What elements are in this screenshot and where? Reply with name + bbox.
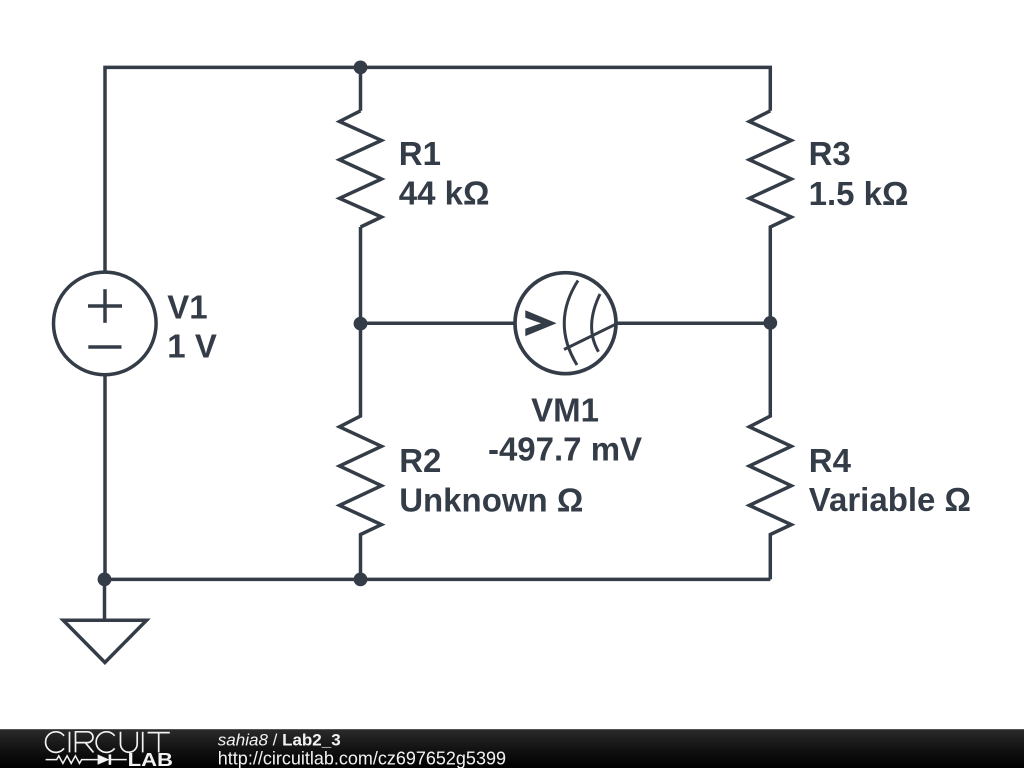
svg-text:R4: R4 <box>809 442 852 479</box>
wire voltmeter to mid right <box>617 322 770 326</box>
voltmeter VM1 circle <box>515 273 616 374</box>
svg-text:V1: V1 <box>167 288 207 325</box>
wire mid left to voltmeter <box>361 322 514 326</box>
svg-text:Unknown Ω: Unknown Ω <box>399 481 583 518</box>
svg-text:1 V: 1 V <box>167 327 217 364</box>
node C dot (mid right) <box>763 316 777 330</box>
ground wire <box>103 579 107 620</box>
svg-text:-497.7 mV: -497.7 mV <box>488 430 642 467</box>
VM1 chevron <box>525 310 556 336</box>
logo resistor squiggle <box>46 756 98 764</box>
wire top rail <box>105 67 770 271</box>
logo letter C <box>96 732 114 753</box>
wire R1 bottom <box>359 227 363 324</box>
voltage source V1 <box>54 272 157 375</box>
node E dot (bottom mid) <box>354 573 368 587</box>
resistor R1 <box>340 111 382 227</box>
V1 minus sign <box>88 345 121 349</box>
V1 plus sign <box>88 304 122 308</box>
logo letter T <box>148 733 170 753</box>
VM1 needle <box>564 323 619 350</box>
node A dot (top) <box>354 61 368 75</box>
footer bar <box>0 729 1024 768</box>
svg-text:R2: R2 <box>399 442 441 479</box>
svg-text:sahia8 / Lab2_3: sahia8 / Lab2_3 <box>218 730 341 749</box>
node D dot (bottom left) <box>98 573 112 587</box>
logo letter I <box>69 732 71 753</box>
resistor R4 <box>749 323 791 580</box>
VM1 arc left <box>564 281 578 366</box>
ground symbol <box>63 620 146 662</box>
svg-text:R1: R1 <box>399 135 441 172</box>
resistor R3 <box>749 111 791 323</box>
logo letter R <box>76 732 94 753</box>
node wire R1 top <box>359 67 363 110</box>
svg-text:http://circuitlab.com/cz697652: http://circuitlab.com/cz697652g5399 <box>218 749 506 768</box>
wire left rail bottom <box>103 374 107 580</box>
logo letter U <box>121 732 138 752</box>
svg-text:Variable Ω: Variable Ω <box>809 481 971 518</box>
resistor R2 <box>340 324 382 580</box>
logo diode <box>98 754 110 764</box>
wire bottom rail <box>105 578 771 582</box>
svg-text:1.5 kΩ: 1.5 kΩ <box>809 175 909 212</box>
svg-text:R3: R3 <box>809 135 851 172</box>
svg-text:VM1: VM1 <box>531 392 599 429</box>
VM1 arc right <box>592 294 600 352</box>
svg-text:44 kΩ: 44 kΩ <box>399 175 490 212</box>
svg-text:LAB: LAB <box>128 750 173 768</box>
node B dot (mid left) <box>354 317 368 331</box>
logo letter C <box>46 732 64 753</box>
logo letter I <box>142 732 144 753</box>
